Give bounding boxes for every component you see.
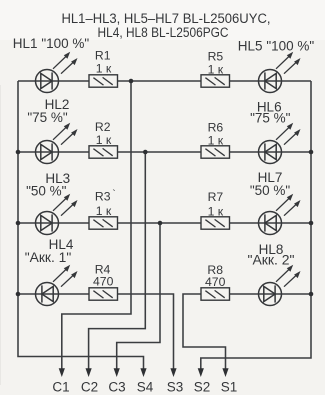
svg-text:1 к: 1 к <box>208 205 224 219</box>
label HL6 "75 %" <box>250 100 291 126</box>
junction row3 C3-net tap <box>158 221 163 226</box>
svg-text:1 к: 1 к <box>208 134 224 148</box>
wire row4 right <box>230 293 312 295</box>
wire node C2 from row2 junction <box>89 152 146 370</box>
node label S2 <box>194 380 211 395</box>
label HL3 "50 %" <box>26 171 70 199</box>
wire row4 left <box>18 293 89 295</box>
wire row2 right <box>230 151 312 153</box>
resistor R6 <box>201 146 230 158</box>
label HL7 "50 %" <box>250 170 291 198</box>
svg-text:R3: R3 <box>95 189 111 203</box>
svg-text:1 к: 1 к <box>96 204 112 218</box>
page edge strip <box>0 85 1 385</box>
resistor R4 <box>89 288 118 300</box>
node label C3 <box>108 380 125 395</box>
svg-text:S1: S1 <box>221 380 238 395</box>
resistor R7 <box>201 217 230 229</box>
label R8 470 <box>205 263 226 289</box>
resistor R1 <box>89 75 118 87</box>
LED HL8 <box>259 265 301 306</box>
svg-text:R2: R2 <box>95 120 111 134</box>
svg-text:HL1–HL3, HL5–HL7 BL-L2506UYC,: HL1–HL3, HL5–HL7 BL-L2506UYC, <box>62 11 271 26</box>
svg-text:"Акк. 2": "Акк. 2" <box>248 253 295 268</box>
wire row1 left <box>18 80 89 82</box>
svg-text:HL1 "100 %": HL1 "100 %" <box>13 36 90 51</box>
resistor R2 <box>89 146 118 158</box>
LED HL7 <box>259 194 301 235</box>
junction right bus row4 <box>309 292 314 297</box>
junction left bus row4 <box>16 292 21 297</box>
wire row3 right <box>230 222 312 224</box>
resistor R3 <box>89 217 118 229</box>
svg-text:"75 %": "75 %" <box>27 110 68 125</box>
label HL8 "Акк. 2" <box>248 242 295 268</box>
junction left bus row3 <box>16 221 21 226</box>
arrow terminal S4 <box>140 368 146 377</box>
label R1 1 к <box>95 49 112 76</box>
label R5 1 к <box>208 50 224 77</box>
wire row3 left <box>18 222 89 224</box>
LED HL1 <box>36 52 78 93</box>
svg-text:R1: R1 <box>95 49 111 63</box>
LED HL3 <box>36 194 78 235</box>
LED HL6 <box>259 123 301 164</box>
junction right bus row2 <box>309 150 314 155</box>
svg-text:1 к: 1 к <box>96 133 112 147</box>
title part list <box>62 11 271 40</box>
svg-text:HL4, HL8 BL-L2506PGC: HL4, HL8 BL-L2506PGC <box>98 25 229 40</box>
junction row2 C2-net tap <box>143 150 148 155</box>
svg-text:C1: C1 <box>52 380 69 395</box>
arrow terminal S2 <box>198 368 204 377</box>
node label S3 <box>167 380 184 395</box>
resistor R5 <box>201 75 230 87</box>
label R6 1 к <box>208 121 224 148</box>
svg-text:R7: R7 <box>208 190 224 204</box>
svg-text:"50 %": "50 %" <box>250 183 291 198</box>
label HL1 "100 %" <box>13 36 90 51</box>
label HL2 "75 %" <box>27 97 69 125</box>
wire row1 right <box>230 80 312 82</box>
label R4 470 <box>93 263 114 289</box>
svg-text:"Акк. 1": "Акк. 1" <box>25 250 72 265</box>
arrow terminal S1 <box>222 368 228 377</box>
svg-text:HL5 "100 %": HL5 "100 %" <box>238 39 315 54</box>
svg-text:1 к: 1 к <box>96 62 112 76</box>
arrow terminal C3 <box>114 368 120 377</box>
label R2 1 к <box>95 120 112 147</box>
wire node C1 from row1 junction <box>62 81 131 370</box>
arrow terminal S3 <box>170 368 176 377</box>
wire left bus vertical (S4 net) <box>18 81 144 370</box>
label HL5 "100 %" <box>238 39 315 54</box>
label HL4 "Акк. 1" <box>25 237 74 265</box>
junction row1 C1-net tap <box>129 79 134 84</box>
resistor R8 <box>201 288 230 300</box>
svg-text:S3: S3 <box>167 380 184 395</box>
wire row1 middle <box>118 80 202 82</box>
LED HL2 <box>36 123 78 164</box>
svg-text:R6: R6 <box>208 121 224 135</box>
svg-text:"50 %": "50 %" <box>26 184 67 199</box>
wire node C3 from row3 junction <box>117 223 160 370</box>
svg-text:1 к: 1 к <box>208 63 224 77</box>
wire row2 left <box>18 151 89 153</box>
wire row2 middle <box>118 151 202 153</box>
arrow terminal C2 <box>86 368 92 377</box>
junction right bus row3 <box>309 221 314 226</box>
svg-text:C2: C2 <box>81 380 98 395</box>
junction left bus row2 <box>16 150 21 155</box>
LED HL4 <box>36 265 78 306</box>
node label C2 <box>81 380 98 395</box>
wire node S3 from R4 <box>118 294 174 370</box>
svg-text:S2: S2 <box>194 380 211 395</box>
svg-text:C3: C3 <box>108 380 125 395</box>
node label S4 <box>137 380 154 395</box>
wire row3 middle <box>118 222 202 224</box>
arrow terminal C1 <box>59 368 65 377</box>
wire right bus vertical (S2 net) <box>201 81 311 370</box>
node label S1 <box>221 380 238 395</box>
label R3 1 к <box>95 188 116 218</box>
svg-text:S4: S4 <box>137 380 154 395</box>
LED HL5 <box>259 52 301 93</box>
svg-text:470: 470 <box>93 275 114 289</box>
label R7 1 к <box>208 190 224 219</box>
wire node S1 from R8 <box>183 294 226 370</box>
svg-text:R5: R5 <box>208 50 224 64</box>
svg-text:470: 470 <box>205 275 226 289</box>
svg-text:"75 %": "75 %" <box>250 111 291 126</box>
node label C1 <box>52 380 69 395</box>
svg-text:`: ` <box>112 188 115 200</box>
